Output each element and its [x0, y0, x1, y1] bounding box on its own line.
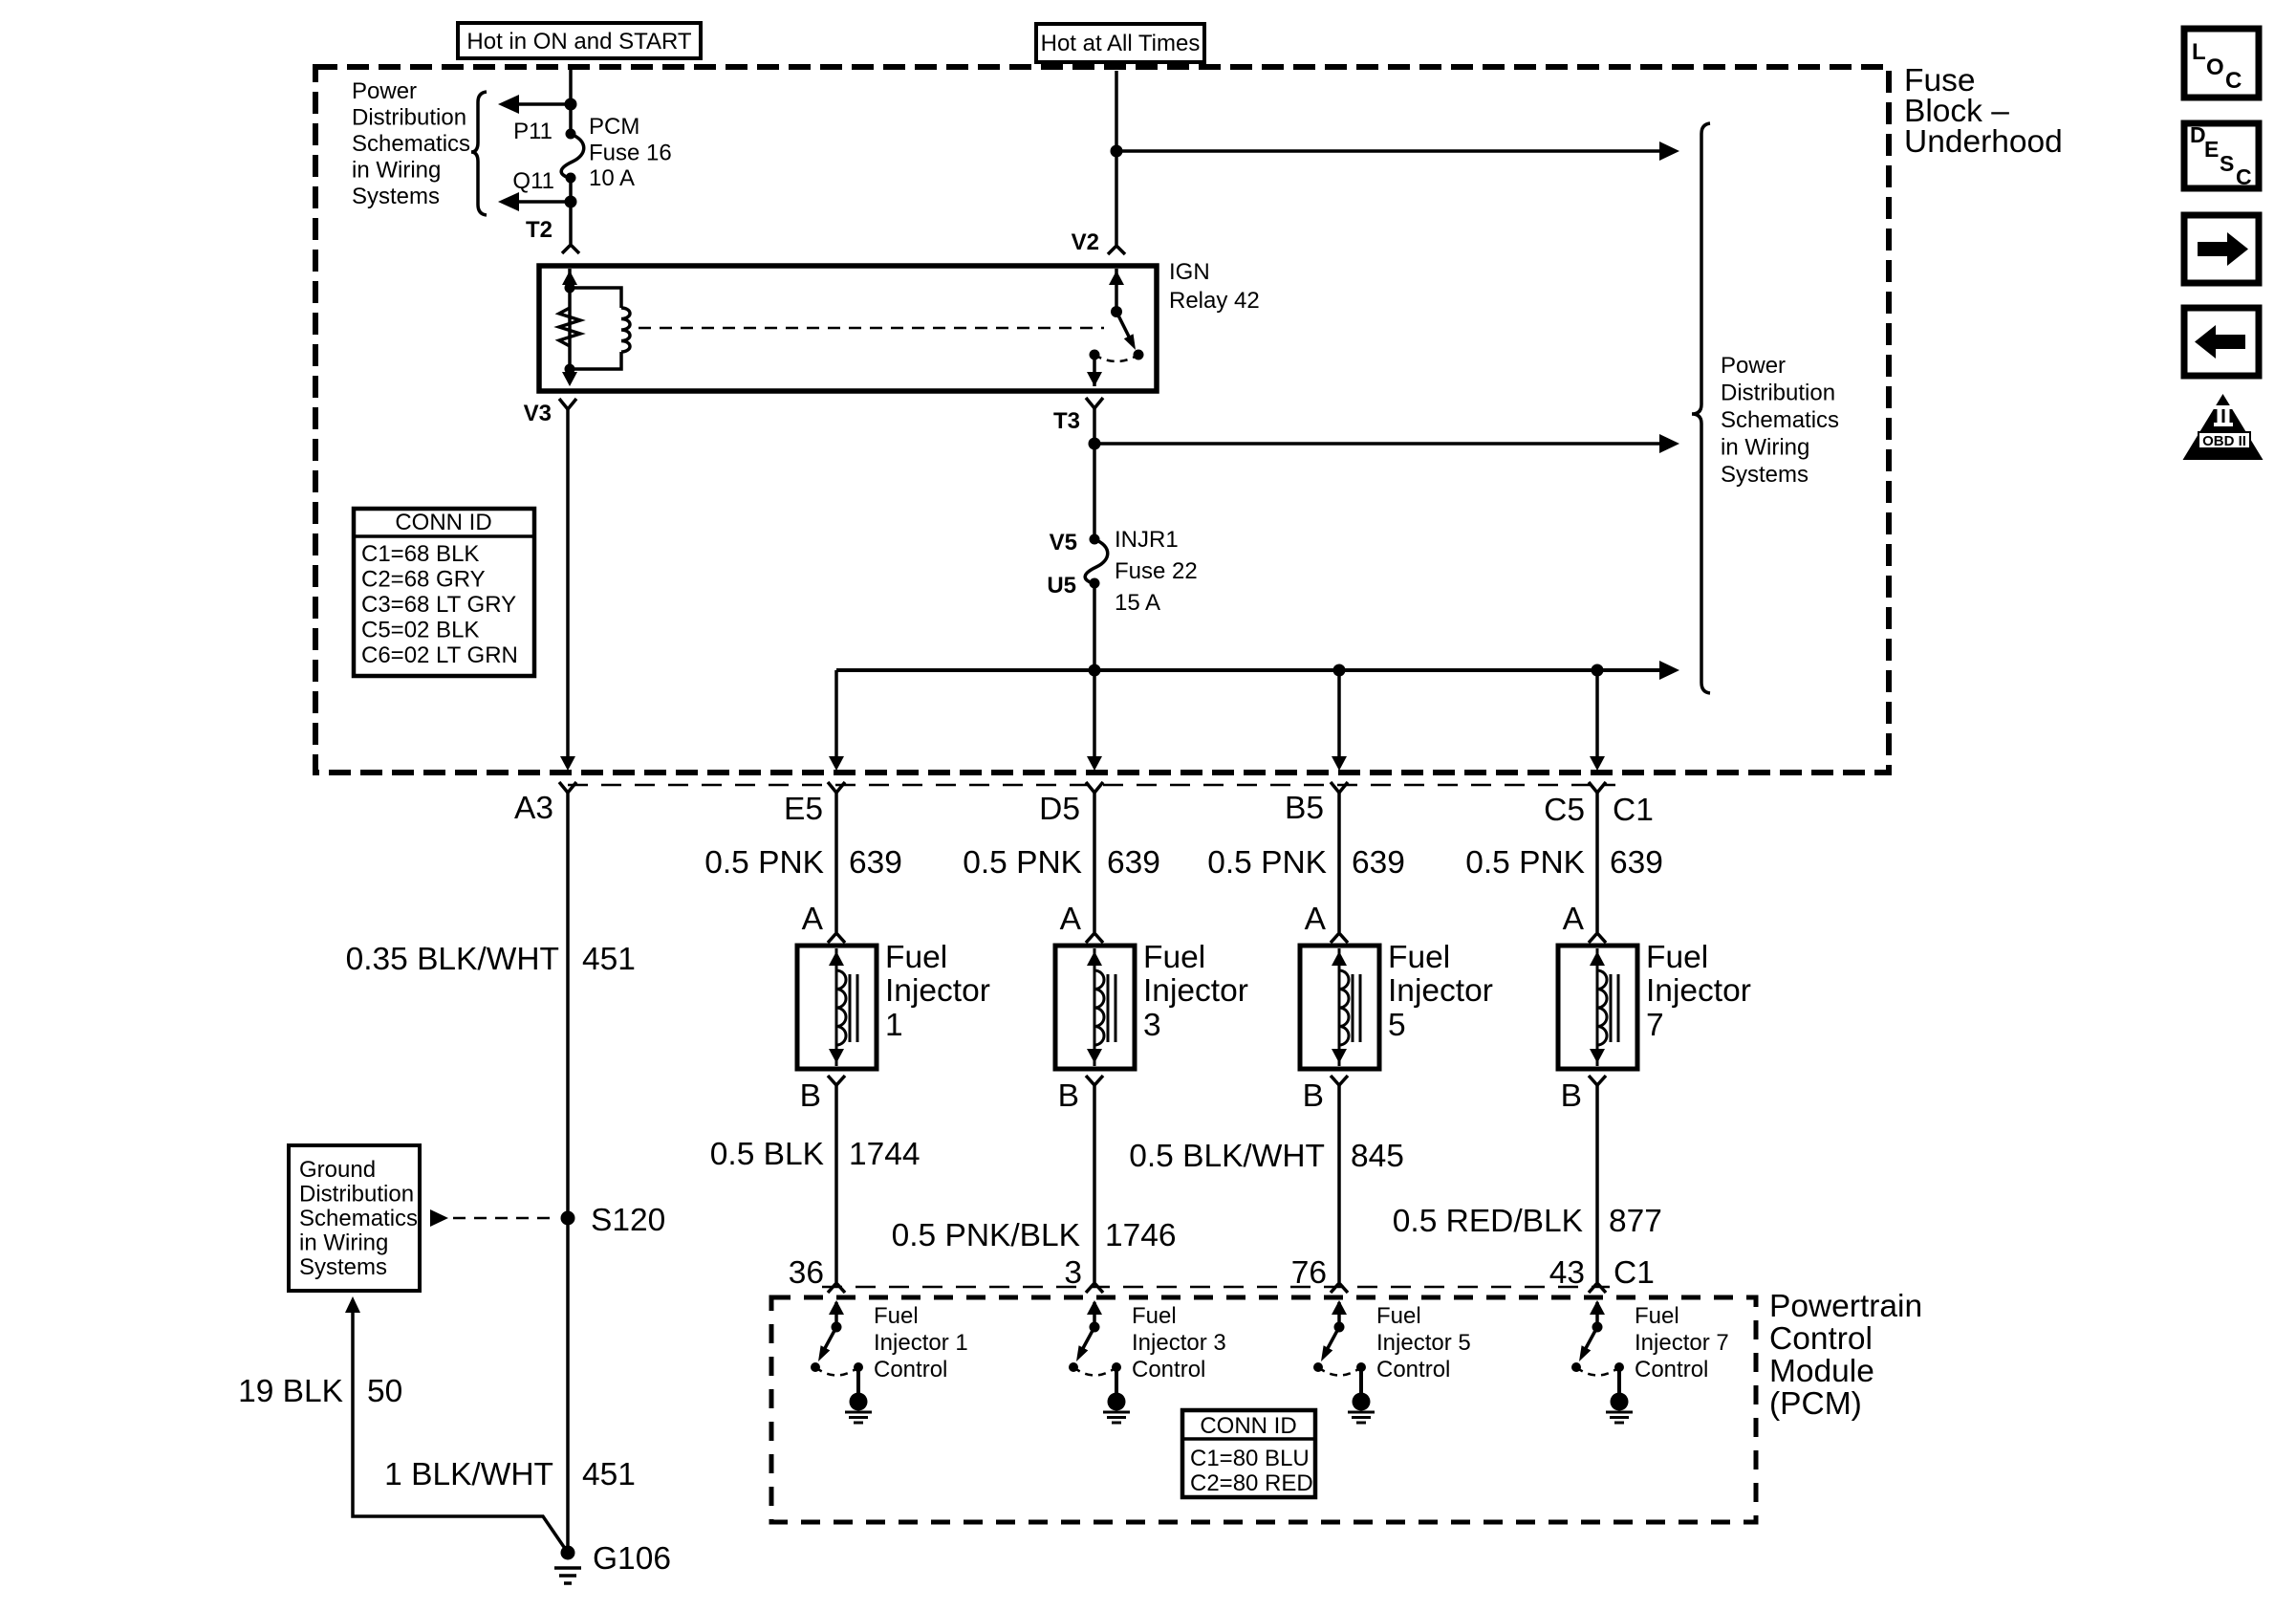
svg-text:Control: Control: [1132, 1357, 1205, 1382]
svg-text:Q11: Q11: [512, 168, 554, 194]
label Fuel Injector 3: [1143, 940, 1248, 1043]
connector fork B injector 7: [1589, 1076, 1606, 1085]
node relay coil top: [565, 283, 575, 294]
node splice S120: [561, 1211, 575, 1226]
svg-text:C1: C1: [1613, 793, 1654, 828]
wire T3 down to V5: [1093, 408, 1096, 539]
svg-text:Fuel: Fuel: [1143, 940, 1205, 975]
fuse INJR1 Fuse 22 15 A (S-curve): [1085, 539, 1108, 583]
node P11 fuse top: [566, 129, 576, 140]
ground G106: [554, 1546, 581, 1584]
wire bus drop to injector 3 at border: [1093, 670, 1096, 759]
svg-text:in Wiring: in Wiring: [299, 1230, 388, 1256]
icon arrow right: [2184, 215, 2259, 283]
svg-text:V3: V3: [524, 401, 552, 426]
svg-text:7: 7: [1646, 1008, 1664, 1043]
svg-text:1746: 1746: [1105, 1218, 1177, 1253]
svg-text:(PCM): (PCM): [1769, 1386, 1862, 1422]
fuse PCM Fuse 16 10 A (S-curve): [561, 134, 584, 178]
wire injector 3 to PCM: [1093, 1085, 1096, 1282]
wire bus drop to injector 7 at border: [1595, 670, 1599, 759]
node bus junction at injector 3 drop: [1089, 664, 1101, 677]
svg-text:Systems: Systems: [1721, 462, 1809, 488]
svg-text:L: L: [2192, 39, 2206, 65]
dashed actuation line from coil to switch: [639, 327, 1104, 330]
icon arrow left: [2184, 308, 2259, 376]
fuel injector 7 box: [1558, 946, 1637, 1069]
wire branch arrow to power distribution (lower): [498, 192, 571, 211]
svg-text:C: C: [2236, 164, 2252, 189]
label Powertrain Control Module (PCM): [1769, 1289, 1922, 1422]
svg-text:Injector 3: Injector 3: [1132, 1330, 1226, 1356]
svg-text:0.5 PNK/BLK: 0.5 PNK/BLK: [892, 1218, 1080, 1253]
svg-text:Distribution: Distribution: [352, 105, 466, 131]
wire bus drop to injector 1 at border: [834, 670, 838, 759]
label Fuel Injector 1 Control: [874, 1303, 968, 1382]
svg-text:Schematics: Schematics: [352, 131, 470, 157]
node bus junction at injector 7 drop: [1592, 664, 1604, 677]
connector fork A injector 3: [1086, 933, 1103, 943]
svg-text:3: 3: [1064, 1255, 1082, 1291]
label box "Hot in ON and START": [458, 23, 701, 58]
svg-text:Injector 1: Injector 1: [874, 1330, 968, 1356]
node switch output: [1090, 350, 1100, 360]
svg-text:B: B: [800, 1078, 821, 1114]
dashed reference line to S120: [453, 1217, 558, 1220]
connector fork PCM injector 1: [828, 1283, 845, 1293]
connector C1 dashed line (PCM top): [822, 1286, 1610, 1289]
ground distribution note box: [289, 1145, 420, 1291]
label Fuel Injector 7 Control: [1635, 1303, 1729, 1382]
svg-text:Schematics: Schematics: [1721, 407, 1839, 433]
node switch common: [1111, 306, 1122, 317]
svg-text:A: A: [1060, 902, 1082, 937]
svg-text:Schematics: Schematics: [299, 1206, 418, 1231]
svg-text:Systems: Systems: [352, 184, 440, 209]
label INJR1 Fuse 22 15 A: [1115, 527, 1198, 616]
svg-text:76: 76: [1291, 1255, 1327, 1291]
svg-text:Fuel: Fuel: [874, 1303, 919, 1329]
wire label 0.5 RED/BLK 877: [1393, 1204, 1662, 1239]
svg-text:Fuel: Fuel: [1376, 1303, 1421, 1329]
wire label 1 BLK/WHT 451: [384, 1457, 636, 1492]
fuel injector 1 box: [797, 946, 877, 1069]
svg-text:Module: Module: [1769, 1354, 1874, 1389]
fuel injector 3 internals (coil and core): [1087, 948, 1116, 1066]
svg-text:0.5 PNK: 0.5 PNK: [704, 845, 824, 881]
coil L1 (relay winding): [621, 308, 630, 352]
label Fuel Injector 5: [1388, 940, 1493, 1043]
svg-text:Power: Power: [1721, 353, 1786, 379]
wire label 0.35 BLK/WHT 451: [346, 942, 636, 977]
fuel injector 3 box: [1055, 946, 1135, 1069]
svg-text:36: 36: [789, 1255, 824, 1291]
node junction below Q11: [565, 196, 577, 208]
svg-text:S120: S120: [591, 1203, 665, 1238]
label Fuel Injector 3 Control: [1132, 1303, 1226, 1382]
icon DESC: [2184, 122, 2259, 189]
svg-text:Control: Control: [1769, 1321, 1873, 1357]
connector fork A injector 7: [1589, 933, 1606, 943]
svg-text:0.5 PNK: 0.5 PNK: [963, 845, 1082, 881]
connector fork B injector 3: [1086, 1076, 1103, 1085]
svg-text:3: 3: [1143, 1008, 1161, 1043]
connector fork V2: [1108, 246, 1125, 254]
svg-text:Control: Control: [874, 1357, 947, 1382]
svg-text:A: A: [1563, 902, 1585, 937]
svg-text:Fuel: Fuel: [1388, 940, 1450, 975]
label Fuel Injector 7: [1646, 940, 1751, 1043]
svg-text:OBD II: OBD II: [2202, 433, 2246, 449]
wire label 19 BLK 50: [238, 1374, 402, 1409]
svg-text:B: B: [1303, 1078, 1324, 1114]
icon OBD II: [2183, 394, 2264, 460]
svg-text:Injector: Injector: [885, 973, 990, 1009]
svg-text:0.5 PNK: 0.5 PNK: [1465, 845, 1585, 881]
bus wire (injector feed) with arrow to power distribution right: [836, 661, 1679, 680]
svg-text:639: 639: [849, 845, 902, 881]
wire E5 to fuel injector 1: [834, 793, 838, 932]
wire branch arrow to power distribution (upper): [498, 95, 571, 114]
PCM driver fuel injector 7 control: [1571, 1300, 1633, 1423]
connector fork PCM injector 5: [1331, 1283, 1348, 1293]
brace (right, power distribution): [1692, 123, 1710, 693]
wire C5 to fuel injector 7: [1595, 793, 1599, 932]
label Fuse Block - Underhood: [1904, 63, 2063, 160]
svg-text:43: 43: [1549, 1255, 1585, 1291]
svg-text:Ground: Ground: [299, 1157, 376, 1183]
svg-text:A: A: [802, 902, 824, 937]
svg-text:Fuse 22: Fuse 22: [1115, 558, 1198, 584]
fuel injector 5 internals (coil and core): [1332, 948, 1360, 1066]
wire D5 to fuel injector 3: [1093, 793, 1096, 932]
node junction V2 branch: [1111, 145, 1123, 158]
svg-text:Control: Control: [1635, 1357, 1708, 1382]
svg-text:Hot in ON and START: Hot in ON and START: [466, 29, 692, 54]
svg-text:1744: 1744: [849, 1137, 921, 1172]
svg-text:Fuse 16: Fuse 16: [589, 141, 672, 166]
svg-text:E: E: [2204, 137, 2219, 162]
connector fork PCM injector 7: [1589, 1283, 1606, 1293]
relay switch pin wire (right, from V2): [1115, 269, 1118, 312]
connector fork B5: [1331, 782, 1348, 793]
svg-text:C2=68 GRY: C2=68 GRY: [361, 567, 486, 593]
svg-text:D5: D5: [1039, 792, 1080, 827]
svg-text:Injector: Injector: [1646, 973, 1751, 1009]
fuel injector 5 box: [1300, 946, 1379, 1069]
svg-text:C5: C5: [1544, 793, 1585, 828]
relay coil pin wire (left, from T2): [568, 269, 572, 369]
svg-text:A3: A3: [514, 791, 553, 826]
connector fork A3: [559, 782, 576, 793]
arrow up into ground note box: [345, 1296, 360, 1313]
svg-text:1: 1: [885, 1008, 903, 1043]
svg-text:V5: V5: [1050, 530, 1077, 555]
svg-text:Injector: Injector: [1143, 973, 1248, 1009]
PCM driver fuel injector 3 control: [1069, 1300, 1130, 1423]
connector arrow at border (C5): [1590, 756, 1605, 771]
svg-text:Hot at All Times: Hot at All Times: [1041, 31, 1201, 56]
connector fork A injector 5: [1331, 933, 1348, 943]
node bus junction at injector 5 drop: [1333, 664, 1346, 677]
connector arrow at border (E5): [829, 756, 844, 771]
note Power Distribution Schematics in Wiring Systems (top left): [352, 78, 470, 209]
svg-text:0.35 BLK/WHT: 0.35 BLK/WHT: [346, 942, 559, 977]
PCM driver fuel injector 1 control: [811, 1300, 872, 1423]
PCM driver fuel injector 5 control: [1313, 1300, 1375, 1423]
svg-text:Power: Power: [352, 78, 417, 104]
wire from Q11 to T2 connector: [569, 178, 573, 244]
svg-text:IGN: IGN: [1169, 259, 1210, 285]
svg-text:in Wiring: in Wiring: [352, 158, 441, 184]
connector fork T3: [1086, 398, 1103, 408]
svg-text:Injector: Injector: [1388, 973, 1493, 1009]
wire A3 down to G106: [566, 793, 570, 1553]
svg-text:451: 451: [582, 1457, 636, 1492]
svg-text:Powertrain: Powertrain: [1769, 1289, 1922, 1324]
svg-text:877: 877: [1609, 1204, 1662, 1239]
svg-text:B: B: [1561, 1078, 1582, 1114]
svg-text:Fuel: Fuel: [1646, 940, 1708, 975]
svg-text:E5: E5: [784, 792, 823, 827]
connector fork E5: [828, 782, 845, 793]
svg-text:in Wiring: in Wiring: [1721, 435, 1809, 461]
node Q11 fuse bottom: [566, 173, 576, 184]
svg-text:CONN ID: CONN ID: [1200, 1413, 1296, 1439]
svg-text:T2: T2: [526, 217, 552, 243]
svg-text:Fuel: Fuel: [1635, 1303, 1679, 1329]
label Fuel Injector 5 Control: [1376, 1303, 1471, 1382]
svg-text:C6=02 LT GRN: C6=02 LT GRN: [361, 642, 518, 668]
svg-text:Distribution: Distribution: [299, 1182, 414, 1208]
connector C1 dashed line (fuse block bottom): [568, 784, 1615, 787]
svg-text:B5: B5: [1285, 791, 1324, 826]
node relay coil bottom: [565, 364, 575, 375]
connector arrow into relay (right top): [1109, 271, 1124, 285]
fuel injector 1 internals (coil and core): [829, 948, 857, 1066]
connector fork T2: [562, 245, 579, 253]
svg-text:10 A: 10 A: [589, 165, 635, 191]
svg-text:451: 451: [582, 942, 636, 977]
wire label 0.5 PNK 639 (injector 5): [1207, 845, 1405, 881]
svg-text:C5=02 BLK: C5=02 BLK: [361, 618, 479, 643]
wire from Hot in ON and START down to T2: [569, 68, 573, 134]
svg-text:C1: C1: [1614, 1255, 1655, 1291]
wire label 0.5 BLK/WHT 845: [1129, 1139, 1404, 1174]
svg-text:Relay 42: Relay 42: [1169, 288, 1260, 314]
svg-text:A: A: [1305, 902, 1327, 937]
label IGN Relay 42: [1169, 259, 1260, 314]
svg-text:639: 639: [1610, 845, 1663, 881]
svg-text:Systems: Systems: [299, 1254, 387, 1280]
svg-text:0.5 BLK/WHT: 0.5 BLK/WHT: [1129, 1139, 1325, 1174]
wire U5 down to bus: [1093, 583, 1096, 670]
svg-text:C2=80 RED: C2=80 RED: [1190, 1470, 1313, 1496]
svg-text:0.5 BLK: 0.5 BLK: [710, 1137, 824, 1172]
svg-text:1 BLK/WHT: 1 BLK/WHT: [384, 1457, 553, 1492]
connector fork B injector 5: [1331, 1076, 1348, 1085]
svg-text:O: O: [2206, 54, 2224, 80]
svg-text:U5: U5: [1047, 573, 1076, 599]
svg-text:639: 639: [1352, 845, 1405, 881]
icon LOC: [2184, 29, 2259, 98]
connector arrow at border (D5): [1087, 756, 1102, 771]
svg-text:V2: V2: [1072, 229, 1099, 255]
svg-text:G106: G106: [593, 1541, 671, 1577]
connector fork PCM injector 3: [1086, 1283, 1103, 1293]
svg-text:50: 50: [367, 1374, 402, 1409]
connector arrow into relay (left top): [562, 271, 577, 285]
svg-text:0.5 RED/BLK: 0.5 RED/BLK: [1393, 1204, 1583, 1239]
wire V3 down to fuse block border (A3): [566, 409, 570, 759]
svg-text:639: 639: [1107, 845, 1160, 881]
svg-text:Control: Control: [1376, 1357, 1450, 1382]
note Power Distribution Schematics in Wiring Systems (right): [1721, 353, 1839, 488]
connector arrow out of relay (right bottom): [1087, 372, 1102, 386]
svg-text:0.5 PNK: 0.5 PNK: [1207, 845, 1327, 881]
wire switch output down: [1093, 355, 1096, 386]
connector fork B injector 1: [828, 1076, 845, 1085]
dashed travel arc of switch: [1094, 355, 1138, 361]
wire injector 7 to PCM: [1595, 1085, 1599, 1282]
wire label 0.5 BLK 1744: [710, 1137, 921, 1172]
svg-text:B: B: [1058, 1078, 1079, 1114]
CONN ID table (fuse block): [354, 509, 534, 676]
wire 19 BLK 50 (to G106): [353, 1312, 566, 1550]
node junction above P11: [565, 98, 577, 111]
svg-text:INJR1: INJR1: [1115, 527, 1179, 553]
node junction T3 branch: [1089, 438, 1101, 450]
svg-text:CONN ID: CONN ID: [395, 510, 491, 535]
connector fork A injector 1: [828, 933, 845, 943]
node switch contact (open): [1134, 350, 1144, 360]
relay box IGN Relay 42: [539, 266, 1157, 391]
svg-text:C1=80 BLU: C1=80 BLU: [1190, 1446, 1310, 1471]
svg-text:Underhood: Underhood: [1904, 124, 2063, 160]
relay coil branch wiring: [570, 288, 621, 369]
node U5 fuse bottom: [1090, 578, 1100, 589]
svg-text:19 BLK: 19 BLK: [238, 1374, 343, 1409]
label Fuel Injector 1: [885, 940, 990, 1043]
svg-text:C1=68 BLK: C1=68 BLK: [361, 541, 479, 567]
wire label 0.5 PNK 639 (injector 1): [704, 845, 902, 881]
svg-text:Injector 5: Injector 5: [1376, 1330, 1471, 1356]
connector fork D5: [1086, 782, 1103, 793]
svg-text:C: C: [2225, 68, 2242, 94]
svg-text:Injector 7: Injector 7: [1635, 1330, 1729, 1356]
arrow from ground note toward S120: [430, 1209, 448, 1227]
svg-text:Distribution: Distribution: [1721, 381, 1835, 406]
PCM dashed border: [771, 1297, 1756, 1522]
wire label 0.5 PNK 639 (injector 3): [963, 845, 1160, 881]
label PCM Fuse 16 10 A: [589, 114, 672, 191]
wire injector 5 to PCM: [1337, 1085, 1341, 1282]
svg-text:T3: T3: [1053, 408, 1080, 434]
wire from Hot at All Times down to V2: [1115, 71, 1118, 245]
wire label 0.5 PNK/BLK 1746: [892, 1218, 1177, 1253]
connector fork V3: [559, 399, 576, 409]
connector arrow out of relay (left bottom): [562, 372, 577, 386]
node V5 fuse top: [1090, 534, 1100, 545]
svg-text:PCM: PCM: [589, 114, 639, 140]
svg-text:15 A: 15 A: [1115, 590, 1160, 616]
connector arrow at border (A3): [560, 756, 575, 771]
fuse block dashed border: [315, 67, 1889, 773]
connector arrow at border (B5): [1332, 756, 1347, 771]
wire branch to power distribution right (top): [1116, 142, 1679, 161]
wire branch to power distribution right (middle): [1094, 434, 1679, 453]
CONN ID table (PCM): [1182, 1410, 1315, 1497]
resistor (relay internal): [559, 308, 580, 346]
brace (left, grouping P11/Q11 arrows): [471, 92, 487, 215]
svg-text:Fuel: Fuel: [885, 940, 947, 975]
wire injector 1 to PCM: [834, 1085, 838, 1282]
svg-text:Fuel: Fuel: [1132, 1303, 1177, 1329]
connector fork C5: [1589, 782, 1606, 793]
svg-text:5: 5: [1388, 1008, 1406, 1043]
svg-text:845: 845: [1351, 1139, 1404, 1174]
switch arm with arrowhead: [1116, 312, 1136, 350]
svg-text:P11: P11: [513, 119, 552, 144]
wire B5 to fuel injector 5: [1337, 793, 1341, 932]
wire bus drop to injector 5 at border: [1337, 670, 1341, 759]
svg-text:C3=68 LT GRY: C3=68 LT GRY: [361, 592, 516, 618]
label box "Hot at All Times": [1036, 24, 1204, 62]
wire label 0.5 PNK 639 (injector 7): [1465, 845, 1663, 881]
fuel injector 7 internals (coil and core): [1590, 948, 1618, 1066]
svg-text:S: S: [2220, 151, 2234, 176]
